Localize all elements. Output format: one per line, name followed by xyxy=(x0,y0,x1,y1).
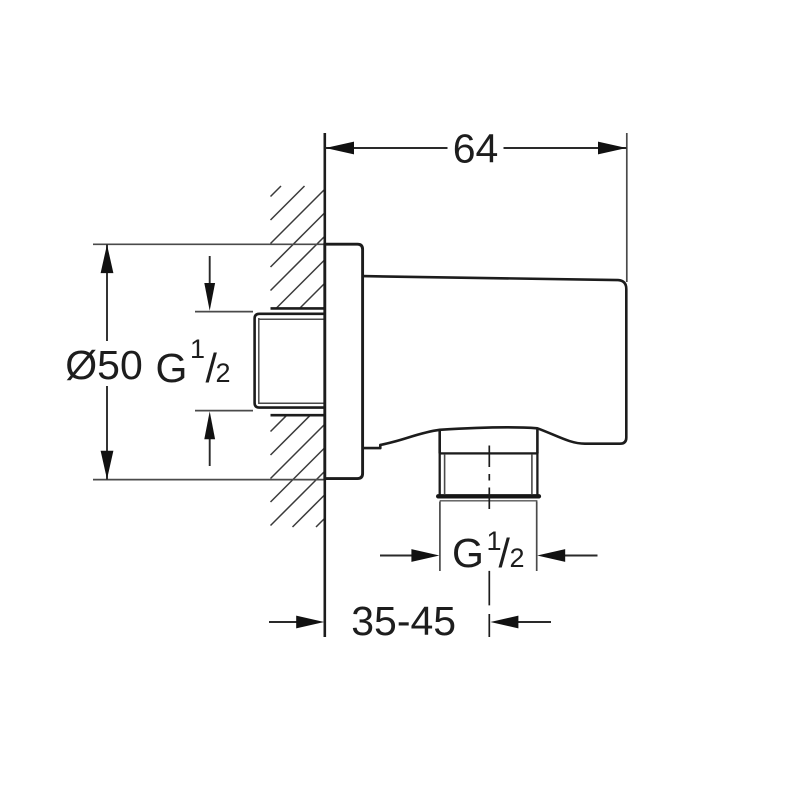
inlet inner bottom line xyxy=(259,402,325,404)
outlet nut inner right line xyxy=(531,455,533,494)
extension line bottom (escutcheon bottom, D50) xyxy=(93,479,325,481)
inlet thread body xyxy=(255,314,325,408)
escutcheon plate xyxy=(325,244,363,478)
svg-text:2: 2 xyxy=(216,358,231,388)
inlet thread flange line top xyxy=(271,307,325,310)
outlet G1/2 left arrow xyxy=(380,555,413,557)
outlet boss right edge xyxy=(536,428,539,453)
body outline xyxy=(363,276,627,448)
inlet G1/2 label xyxy=(156,334,231,391)
outlet G1/2 left extension line xyxy=(439,502,441,572)
outlet G1/2 label xyxy=(452,526,525,576)
wall face line xyxy=(323,133,326,637)
dim 35-45 right arrow xyxy=(518,621,552,623)
outlet G1/2 right arrow xyxy=(565,555,598,557)
outlet centerline upper dashed run xyxy=(488,446,490,511)
dim D50 top arrowhead xyxy=(101,245,114,274)
svg-text:1: 1 xyxy=(190,334,205,364)
inlet thread top extension segment xyxy=(195,311,253,313)
dim 64 left arrowhead xyxy=(326,142,355,155)
dim D50 bottom arrowhead xyxy=(101,451,114,480)
dim D50 vertical line upper segment xyxy=(106,244,108,341)
inlet thread bottom extension segment xyxy=(195,410,253,412)
outlet nut xyxy=(440,453,538,496)
dim 35-45 left arrow xyxy=(269,621,299,623)
dim 64 line left segment xyxy=(326,147,448,149)
inlet down arrow xyxy=(209,256,211,285)
dim D50 vertical line lower segment xyxy=(106,386,108,480)
inlet up arrow xyxy=(209,438,211,467)
dim 64 right extension line xyxy=(626,133,628,282)
svg-text:G: G xyxy=(452,530,484,576)
outlet nut chamfer line xyxy=(440,500,538,502)
outlet centerline lower dashed run xyxy=(488,571,490,637)
outlet nut thick bottom edge xyxy=(438,494,539,498)
svg-text:Ø50: Ø50 xyxy=(65,342,143,388)
outlet nut inner left line xyxy=(444,455,446,494)
outlet boss left edge xyxy=(438,430,441,454)
inlet thread flange line bottom xyxy=(271,414,325,417)
svg-text:64: 64 xyxy=(453,126,499,172)
outlet G1/2 right extension line xyxy=(536,502,538,572)
svg-text:35-45: 35-45 xyxy=(351,598,456,644)
dim 64 line right segment xyxy=(504,147,627,149)
svg-text:2: 2 xyxy=(510,543,525,573)
inlet inner vertical line xyxy=(258,318,260,404)
dim 64 right arrowhead xyxy=(598,142,627,155)
wall hatching xyxy=(271,186,325,527)
inlet inner top line xyxy=(259,318,325,320)
svg-text:G: G xyxy=(156,345,188,391)
extension line top (escutcheon top, D50) xyxy=(93,243,325,245)
